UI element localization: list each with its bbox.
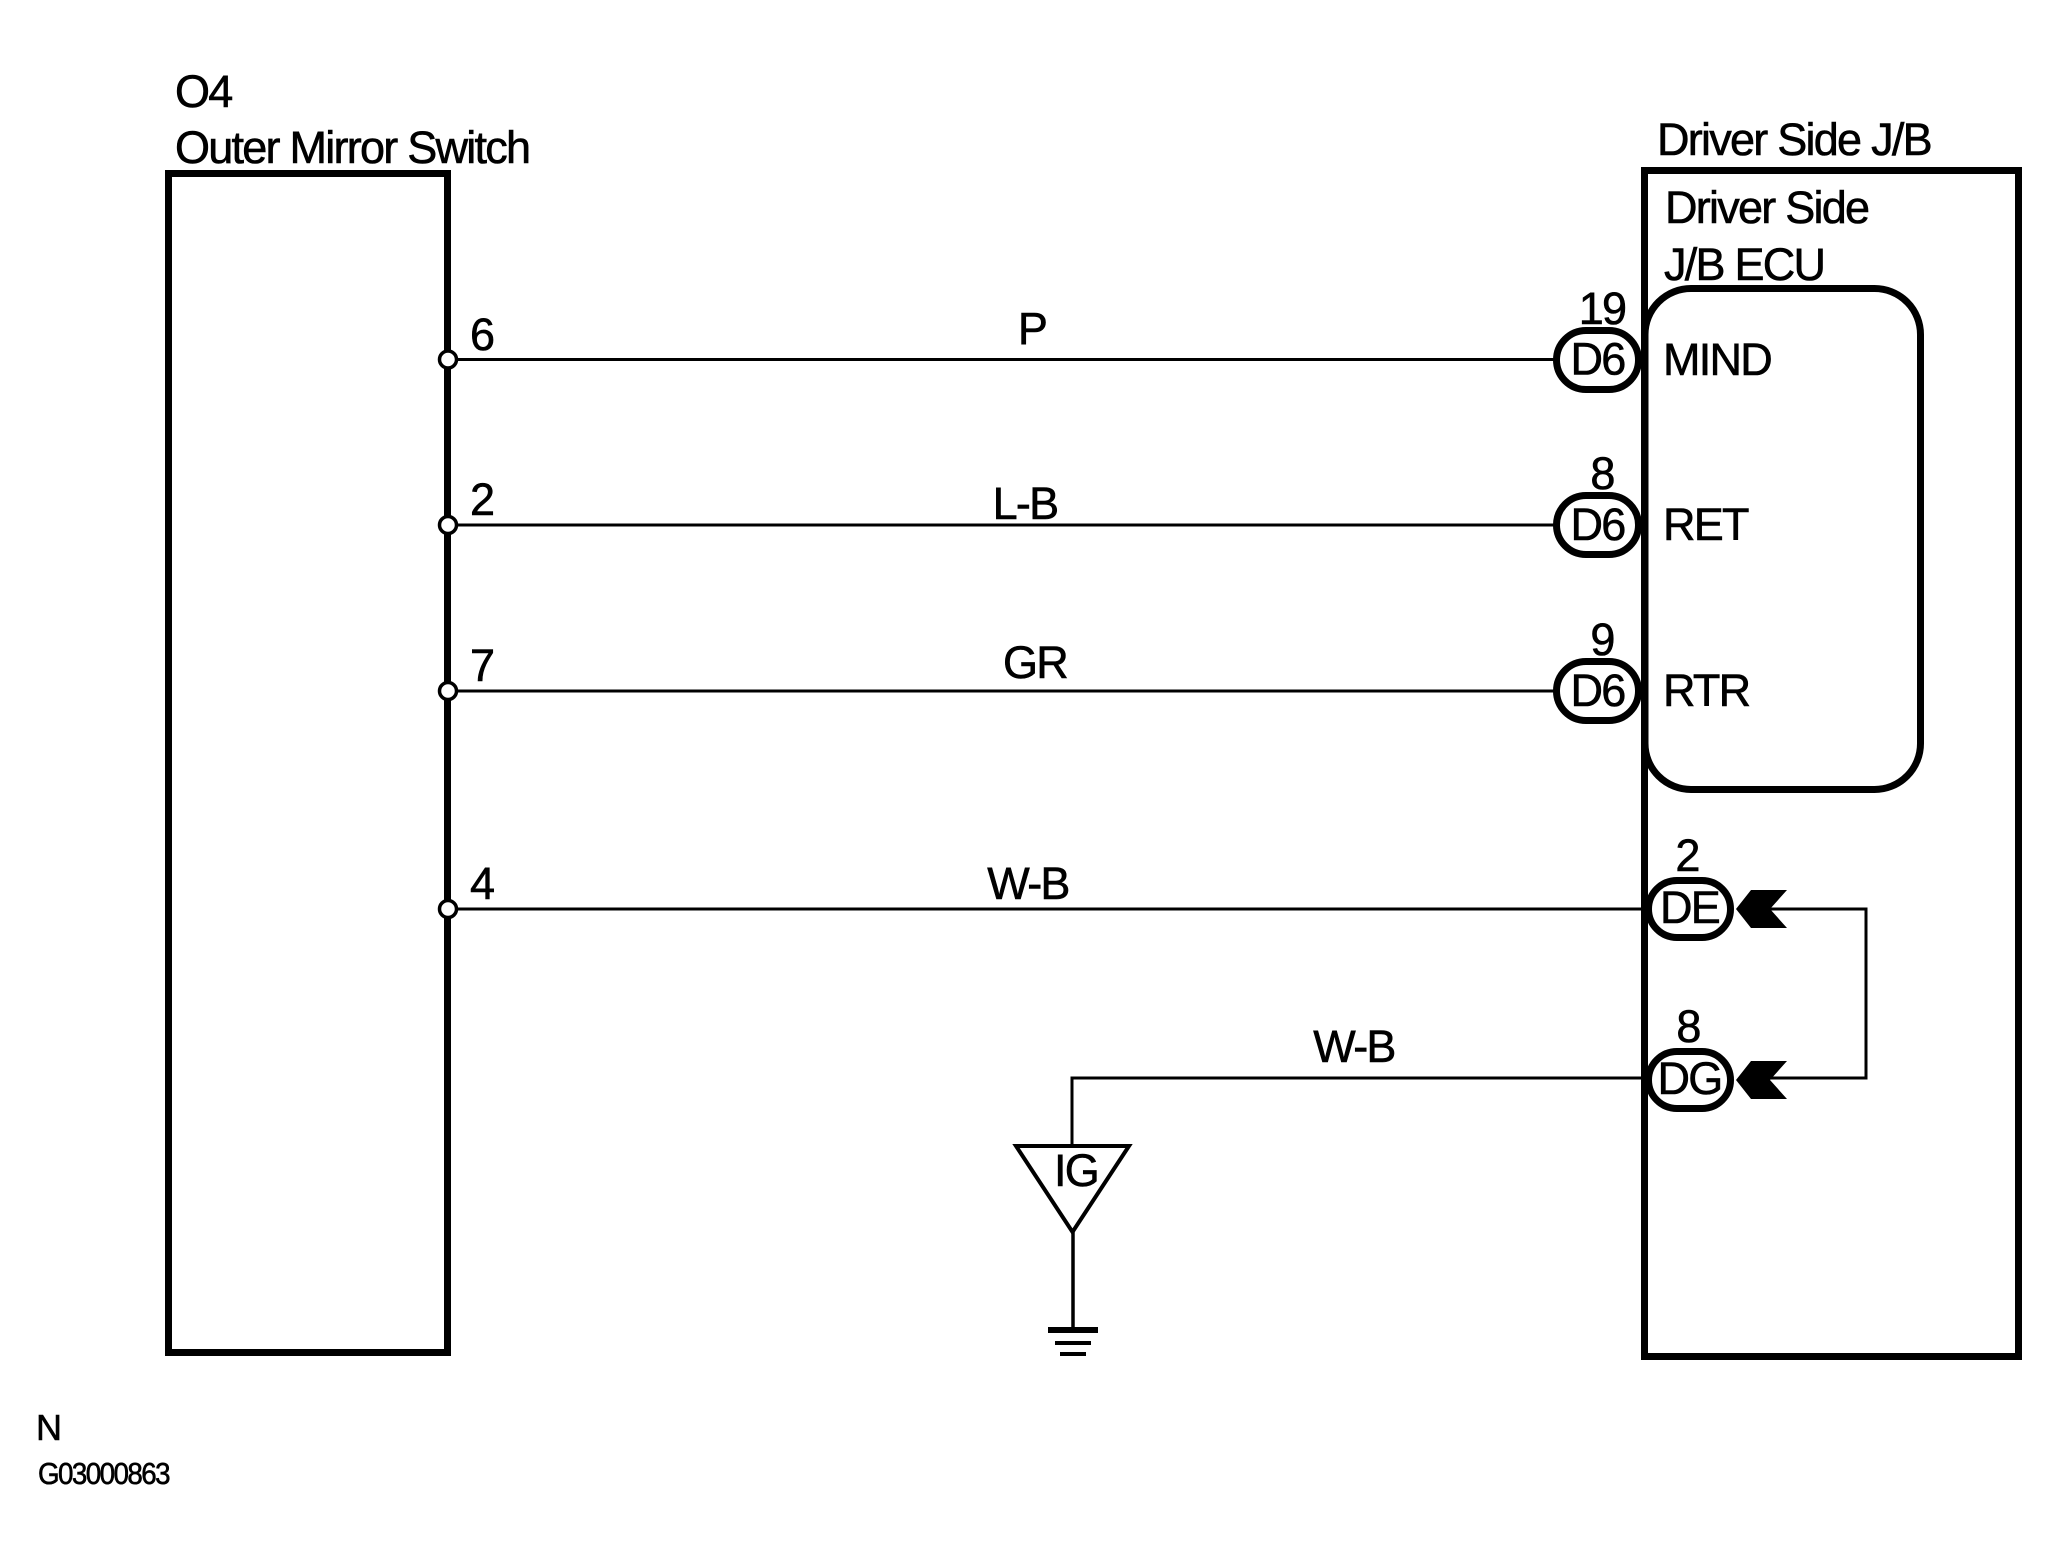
wire DG-IG vertical drop — [1071, 1077, 1074, 1149]
connector O4 Outer Mirror Switch box — [169, 174, 448, 1353]
svg-text:6: 6 — [470, 309, 494, 360]
svg-text:IG: IG — [1054, 1145, 1098, 1196]
svg-text:2: 2 — [470, 474, 493, 525]
svg-text:4: 4 — [470, 858, 494, 909]
svg-text:19: 19 — [1579, 283, 1626, 334]
svg-text:8: 8 — [1590, 448, 1614, 499]
pin 4 node circle — [440, 901, 457, 918]
svg-text:O4: O4 — [175, 66, 232, 117]
connector D6 pin 19 oval — [1557, 331, 1639, 390]
wire pin2 to D6 RET (L-B) — [456, 524, 1556, 527]
svg-text:RTR: RTR — [1663, 665, 1750, 716]
wire DE loop right — [1768, 909, 1866, 1078]
svg-text:P: P — [1018, 303, 1046, 354]
connector DG pin 8 oval — [1649, 1052, 1731, 1109]
svg-text:7: 7 — [470, 640, 493, 691]
power symbol IG triangle — [1016, 1146, 1129, 1232]
svg-text:G03000863: G03000863 — [38, 1456, 169, 1491]
wire pin7 to D6 RTR (GR) — [456, 690, 1556, 693]
svg-text:MIND: MIND — [1663, 334, 1771, 385]
arrow at DG — [1736, 1061, 1787, 1099]
pin 6 node circle — [440, 351, 457, 368]
wire IG to ground — [1071, 1230, 1075, 1329]
ground symbol — [1048, 1327, 1098, 1333]
wire DG to IG (W-B) horizontal — [1072, 1077, 1650, 1080]
svg-text:DG: DG — [1658, 1053, 1722, 1104]
pin 7 node circle — [440, 683, 457, 700]
svg-text:8: 8 — [1676, 1001, 1700, 1052]
ECU U1 rounded box — [1645, 289, 1921, 790]
wire pin6 to D6 MIND (P) — [456, 358, 1556, 361]
svg-text:J/B ECU: J/B ECU — [1664, 239, 1824, 290]
svg-text:Outer Mirror Switch: Outer Mirror Switch — [175, 122, 529, 173]
svg-text:Driver Side: Driver Side — [1665, 182, 1869, 233]
connector D6 pin 9 oval — [1557, 662, 1639, 721]
svg-text:GR: GR — [1003, 637, 1067, 688]
svg-text:D6: D6 — [1570, 665, 1625, 716]
pin 2 node circle — [440, 517, 457, 534]
svg-text:Driver Side J/B: Driver Side J/B — [1657, 114, 1931, 165]
svg-text:L-B: L-B — [993, 478, 1058, 529]
svg-text:9: 9 — [1590, 614, 1613, 665]
connector D6 pin 8 oval — [1557, 496, 1639, 555]
wire pin4 to DE (W-B) — [456, 908, 1650, 911]
connector DE pin 2 oval — [1649, 881, 1731, 938]
svg-text:DE: DE — [1660, 882, 1720, 933]
svg-text:W-B: W-B — [1313, 1021, 1394, 1072]
arrow at DE — [1736, 890, 1787, 928]
svg-text:D6: D6 — [1570, 499, 1625, 550]
svg-text:RET: RET — [1663, 499, 1749, 550]
junction block Driver Side J/B box — [1645, 171, 2019, 1357]
svg-text:N: N — [36, 1407, 60, 1448]
svg-text:2: 2 — [1675, 830, 1698, 881]
svg-text:D6: D6 — [1570, 334, 1625, 385]
svg-text:W-B: W-B — [987, 858, 1068, 909]
